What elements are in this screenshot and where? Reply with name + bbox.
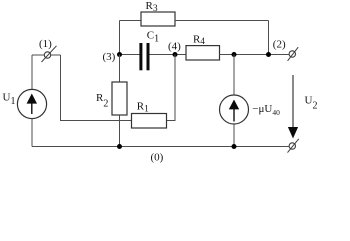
node (4) junction dot <box>173 52 178 57</box>
wire: bottom rail (0) <box>32 146 289 148</box>
svg-text:U1: U1 <box>3 91 16 107</box>
U2 voltage arrow <box>288 75 298 139</box>
resistor R4 <box>186 46 220 60</box>
svg-text:(2): (2) <box>273 38 286 50</box>
wire: node 4 down <box>167 55 176 121</box>
wire: left vertical upper <box>31 55 33 90</box>
wire: R3 right lead <box>175 20 269 22</box>
terminal (1) <box>42 46 57 62</box>
wire: controlled source bottom lead <box>233 124 235 147</box>
junction dot at controlled source top <box>232 52 237 57</box>
wire: left vertical lower <box>31 118 33 146</box>
current source U1 <box>17 89 46 118</box>
svg-text:(0): (0) <box>151 151 164 163</box>
svg-text:R1: R1 <box>137 101 149 115</box>
capacitor C1 <box>139 43 149 70</box>
svg-text:R4: R4 <box>193 33 205 46</box>
wire: controlled source top lead <box>233 55 235 96</box>
wire: vertical from terminal stub to R1 <box>61 55 132 121</box>
wire: node 3 to capacitor <box>120 54 140 56</box>
svg-text:(1): (1) <box>39 38 52 50</box>
junction dot bottom left <box>117 144 122 149</box>
controlled current source -muU40 <box>220 95 249 124</box>
wire: R4 to terminal (2) <box>220 54 289 56</box>
svg-text:−μU40: −μU40 <box>252 103 280 117</box>
wire: top-right vertical down to main rail <box>268 21 270 55</box>
svg-text:U2: U2 <box>305 94 318 111</box>
resistor R3 <box>141 12 175 26</box>
svg-text:(4): (4) <box>168 40 181 52</box>
wire: capacitor to R4 <box>150 54 187 56</box>
node (3) junction dot <box>117 52 122 57</box>
junction dot below node (2) <box>266 52 271 57</box>
svg-text:R2: R2 <box>96 92 108 110</box>
wire: R2 down to bottom rail <box>119 115 121 147</box>
wire: node 3 up to R3 row <box>119 21 121 55</box>
svg-text:(3): (3) <box>103 51 116 63</box>
wire: terminal (1) stub <box>32 54 61 56</box>
terminal (2) <box>288 47 299 61</box>
bottom-right terminal <box>288 139 299 153</box>
wire: R3 left lead <box>120 20 142 22</box>
svg-text:C1: C1 <box>147 29 159 44</box>
wire: node 3 down to R2 <box>119 55 121 83</box>
junction dot bottom right <box>232 144 237 149</box>
resistor R1 <box>132 114 167 129</box>
resistor R2 <box>112 82 127 115</box>
